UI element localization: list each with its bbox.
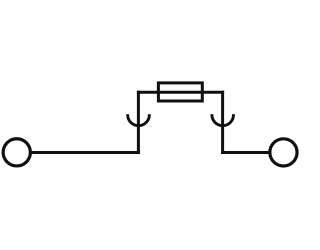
wire top bus (137, 91, 224, 94)
wire left lead (31, 151, 140, 154)
disconnect hook left (128, 114, 150, 125)
terminal circle left (3, 139, 30, 166)
terminal circle right (270, 139, 297, 166)
fuse body (158, 83, 202, 101)
disconnect hook right (212, 114, 234, 125)
wire right vertical drop (221, 91, 224, 154)
wire right lead (221, 151, 269, 154)
wire left vertical riser (137, 91, 140, 154)
